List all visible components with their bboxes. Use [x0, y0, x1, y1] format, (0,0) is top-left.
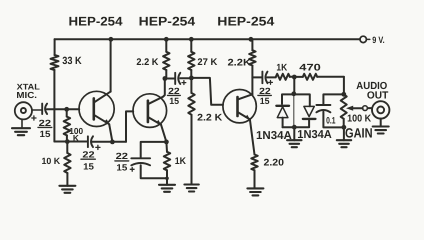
transistor Q2 HEP-254 [133, 94, 167, 128]
ground (Q2 1K) [159, 185, 175, 192]
svg-text:22: 22 [116, 151, 128, 161]
resistor 470 (series) [303, 74, 317, 80]
wire diode bottom bus [283, 126, 310, 128]
svg-text:2.2 K: 2.2 K [197, 113, 222, 124]
svg-text:9 V.: 9 V. [372, 35, 384, 45]
transistor Q3 HEP-254 [223, 90, 256, 123]
svg-text:2.2 K: 2.2 K [136, 57, 158, 68]
svg-text:22: 22 [168, 86, 180, 96]
node 100K tap on Q1 base [64, 107, 69, 112]
svg-text:27 K: 27 K [197, 57, 217, 68]
transistor Q1 HEP-254 [79, 91, 114, 126]
node 33K/100K/10K junction [65, 139, 70, 144]
svg-text:1K: 1K [175, 156, 186, 167]
resistor 2.2K (Q3 collector load) [249, 50, 255, 65]
node Q1 emitter junction [110, 140, 115, 145]
svg-text:22: 22 [82, 149, 94, 159]
svg-text:15: 15 [260, 96, 270, 106]
svg-text:33 K: 33 K [62, 55, 82, 67]
svg-text:470: 470 [299, 62, 321, 73]
resistor 220 (Q3 emitter) [251, 155, 257, 171]
wire Q2 collector up [163, 79, 165, 97]
diode D1 1N34A (cathode up) [276, 105, 289, 107]
capacitor C3 22/15 interstage coupling [165, 77, 192, 79]
ground (mic) [12, 128, 30, 135]
potentiometer 100K GAIN [341, 95, 347, 119]
pot wiper arrow [352, 107, 363, 109]
svg-text:2.20: 2.20 [264, 157, 285, 168]
svg-text:22: 22 [39, 118, 51, 128]
svg-text:22: 22 [259, 86, 271, 96]
terminal wiper terminal circle [363, 106, 368, 111]
ground (10K) [59, 186, 75, 193]
node 1K bottom [165, 177, 169, 181]
ground (220) [247, 188, 263, 195]
wire diode top bus [282, 94, 310, 106]
node rail junction 2.2K [164, 37, 169, 42]
wire bias node to Q3 base [191, 78, 223, 105]
wire mic cap to Q1 base [47, 108, 79, 110]
crystal microphone MIC [15, 102, 32, 119]
wire Q1 emitter down [109, 124, 112, 142]
wire Q2 emitter down [161, 125, 166, 142]
svg-text:1K: 1K [276, 62, 287, 73]
resistor 10K [66, 142, 68, 186]
connector AUDIO OUT jack [372, 101, 389, 118]
resistor 1K (series) [276, 74, 290, 80]
ground (pot) [337, 140, 351, 147]
wire pot top / cap 0.1 [323, 77, 344, 104]
capacitor C1 22/15 input coupling [41, 104, 43, 114]
svg-text:15: 15 [116, 163, 127, 173]
svg-text:100 K: 100 K [347, 114, 372, 125]
wire emitter bus y142 [54, 141, 126, 143]
capacitor C4 22/15 bypass Q2 [131, 157, 150, 159]
node 27K / Q3 base bias [189, 76, 194, 81]
svg-text:1N34A: 1N34A [256, 130, 292, 142]
svg-text:2.2K: 2.2K [228, 58, 252, 69]
svg-text:HEP-254: HEP-254 [217, 15, 274, 29]
wire Q3 emitter down [250, 119, 255, 154]
svg-text:15: 15 [83, 161, 94, 171]
svg-text:HEP-254: HEP-254 [69, 15, 123, 29]
capacitor C2 22/15 bypass Q1 [87, 136, 89, 147]
node Q2 collector / cap [163, 76, 168, 81]
svg-text:0.1: 0.1 [326, 115, 335, 125]
svg-text:HEP-254: HEP-254 [139, 15, 196, 29]
resistor 33K [51, 55, 59, 70]
svg-text:MIC.: MIC. [16, 90, 37, 100]
svg-text:OUT: OUT [367, 91, 389, 102]
wire Q1 collector to rail [110, 39, 112, 91]
svg-text:10 K: 10 K [42, 156, 61, 166]
node rail junction Q1 collector [109, 37, 114, 42]
wire Q2 emitter to bypass cap [141, 142, 167, 157]
wire 33K branch from rail [54, 39, 61, 141]
capacitor C5 22/15 output coupling [252, 76, 275, 78]
svg-text:15: 15 [169, 96, 179, 106]
resistor 1K (Q2 emitter) [165, 142, 168, 185]
svg-text:15: 15 [40, 129, 51, 139]
resistor 27K [190, 39, 192, 78]
capacitor 0.1 [316, 104, 330, 106]
node Q2 emitter junction [164, 140, 169, 145]
svg-text:1N34A: 1N34A [297, 129, 332, 141]
ground (jack) [373, 127, 389, 134]
diode D2 1N34A (cathode down) [304, 106, 314, 116]
resistor 2.2K (Q2 collector load) [165, 39, 167, 78]
resistor 2.2K (Q3 base to ground) [190, 78, 192, 185]
ground (clipper) [293, 127, 295, 140]
node rail junction 2.2K (output stage) [249, 37, 254, 42]
node clipper tap [292, 75, 297, 80]
wire clipper stub [293, 77, 295, 94]
wire Q3 collector up / 2.2K [251, 39, 253, 94]
svg-text:GAIN: GAIN [345, 126, 373, 141]
wire Q1 emitter to Q2 base [126, 111, 133, 141]
ground (2.2K Q3 base) [184, 185, 198, 192]
wire -9V supply rail [55, 38, 360, 40]
resistor 100K [66, 109, 68, 141]
node rail junction 27K [189, 37, 194, 42]
terminal -9V battery terminal [360, 36, 366, 42]
